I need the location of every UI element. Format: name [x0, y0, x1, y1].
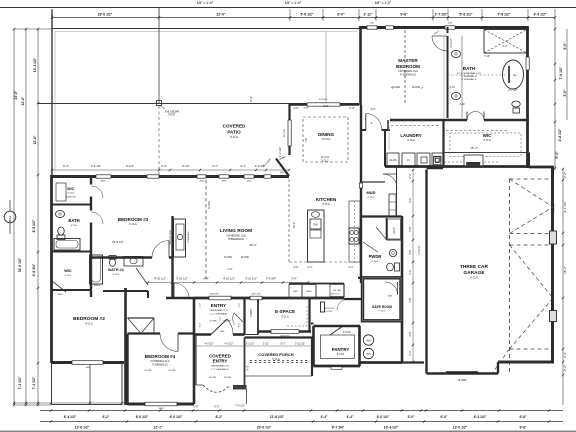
svg-text:4'-11 1/4": 4'-11 1/4" — [554, 203, 556, 212]
svg-text:ENTRY: ENTRY — [211, 303, 226, 308]
svg-text:SLOPE: SLOPE — [209, 377, 217, 379]
svg-text:BR CAB: BR CAB — [333, 289, 341, 292]
svg-text:6'-0 1/2": 6'-0 1/2" — [136, 415, 149, 419]
svg-text:6'-0": 6'-0" — [337, 13, 345, 17]
svg-text:4'-1": 4'-1" — [307, 265, 312, 269]
svg-text:9' SIDEWALLS: 9' SIDEWALLS — [152, 364, 168, 367]
svg-text:9' CLG: 9' CLG — [68, 193, 75, 195]
svg-text:4'-10 1/2": 4'-10 1/2" — [223, 277, 235, 281]
svg-text:9' CLG: 9' CLG — [321, 161, 328, 163]
svg-text:7'-8 1/2": 7'-8 1/2" — [498, 13, 511, 17]
svg-text:3'-10 1/2": 3'-10 1/2" — [245, 277, 257, 281]
svg-text:12'-8": 12'-8" — [33, 135, 37, 144]
svg-text:9' CLG: 9' CLG — [281, 316, 289, 319]
svg-text:9'-8": 9'-8" — [519, 426, 527, 430]
svg-text:3'-1": 3'-1" — [348, 265, 353, 269]
svg-text:4848: 4848 — [101, 181, 107, 183]
svg-text:2'-1 1/2": 2'-1 1/2" — [246, 343, 255, 346]
svg-text:7'-4 1/2": 7'-4 1/2" — [235, 404, 245, 408]
svg-text:13'-0 1/2": 13'-0 1/2" — [453, 426, 468, 430]
svg-text:2'-0": 2'-0" — [161, 164, 167, 168]
svg-text:3070 CO: 3070 CO — [331, 294, 340, 296]
svg-text:2'-2": 2'-2" — [563, 172, 567, 178]
svg-text:1/8" = 1'-0": 1/8" = 1'-0" — [375, 1, 392, 5]
svg-text:2'-3 1/2": 2'-3 1/2" — [278, 147, 282, 158]
svg-text:9'-4": 9'-4" — [200, 323, 202, 328]
svg-text:9' CLG: 9' CLG — [322, 203, 330, 206]
svg-text:4'-4": 4'-4" — [203, 277, 209, 281]
svg-text:9' CLG: 9' CLG — [337, 353, 345, 356]
svg-text:4848: 4848 — [159, 408, 165, 410]
svg-text:2'-7 1/2": 2'-7 1/2" — [435, 13, 448, 17]
svg-text:BEDROOM: BEDROOM — [396, 64, 420, 69]
svg-text:COATS: COATS — [250, 309, 253, 317]
svg-text:FLOOR: FLOOR — [326, 311, 333, 313]
svg-text:9' CLG: 9' CLG — [368, 197, 375, 199]
svg-text:CATHEDRAL CLG: CATHEDRAL CLG — [150, 360, 169, 363]
svg-text:2'-0": 2'-0" — [293, 106, 298, 110]
svg-text:10'-2 CATHEDRAL CLG: 10'-2 CATHEDRAL CLG — [457, 72, 481, 75]
svg-text:BATH: BATH — [68, 218, 79, 223]
svg-text:WIC: WIC — [483, 133, 492, 138]
svg-text:1'-2" SIDEWALLS: 1'-2" SIDEWALLS — [211, 368, 229, 371]
svg-text:2'-11": 2'-11" — [263, 343, 269, 346]
svg-text:CLOS: CLOS — [389, 158, 396, 162]
svg-text:6'-0": 6'-0" — [440, 415, 448, 419]
svg-text:4'-4": 4'-4" — [346, 415, 354, 419]
svg-text:9' CLG: 9' CLG — [85, 323, 93, 326]
svg-text:8: 8 — [9, 219, 11, 223]
svg-text:10' CLG: 10' CLG — [321, 157, 330, 159]
svg-text:10'-4 1/2": 10'-4 1/2" — [384, 426, 399, 430]
svg-text:SLOPE: SLOPE — [241, 256, 249, 259]
svg-text:4'-1": 4'-1" — [212, 164, 218, 168]
svg-text:9' CLG: 9' CLG — [372, 261, 379, 263]
svg-text:6'-4 1/2": 6'-4 1/2" — [64, 415, 77, 419]
svg-text:9' SIDEWALLS: 9' SIDEWALLS — [462, 75, 477, 78]
svg-text:8'-0": 8'-0" — [323, 104, 328, 108]
svg-text:9'-1": 9'-1" — [214, 405, 219, 409]
svg-text:16'-7": 16'-7" — [470, 146, 478, 150]
svg-text:8'-2": 8'-2" — [215, 415, 223, 419]
svg-text:SLOPE: SLOPE — [168, 370, 176, 372]
svg-text:9' CLG: 9' CLG — [113, 274, 120, 276]
svg-text:4'-0 1/2": 4'-0 1/2" — [205, 343, 214, 346]
svg-text:4'-4": 4'-4" — [320, 415, 328, 419]
svg-text:13'-1 1/2": 13'-1 1/2" — [33, 57, 37, 72]
svg-text:6'-0 1/2": 6'-0 1/2" — [170, 415, 183, 419]
svg-text:4'-0 1/2": 4'-0 1/2" — [225, 343, 234, 346]
svg-text:2'-0": 2'-0" — [200, 303, 202, 308]
svg-text:4'-6": 4'-6" — [371, 108, 376, 111]
svg-text:4'-6": 4'-6" — [293, 265, 298, 269]
svg-text:7'-6": 7'-6" — [304, 137, 308, 142]
svg-text:BEDROOM #3: BEDROOM #3 — [118, 217, 149, 222]
svg-text:3'-0": 3'-0" — [407, 415, 415, 419]
svg-text:9' CLG: 9' CLG — [230, 135, 238, 139]
svg-text:SAFE ROOM: SAFE ROOM — [372, 305, 392, 309]
svg-text:9' CLG: 9' CLG — [129, 223, 137, 226]
svg-text:3'-0": 3'-0" — [563, 89, 567, 97]
svg-text:16 5080: 16 5080 — [458, 379, 467, 382]
svg-text:4'-1": 4'-1" — [240, 164, 246, 168]
svg-text:7'-6 1/2": 7'-6 1/2" — [559, 66, 563, 79]
svg-text:3680 DR: 3680 DR — [210, 294, 219, 296]
svg-text:2'-6 1/2": 2'-6 1/2" — [91, 164, 102, 168]
svg-text:9'-8": 9'-8" — [519, 415, 527, 419]
svg-text:3'-10 1/2": 3'-10 1/2" — [176, 277, 188, 281]
svg-text:9' CLG: 9' CLG — [407, 139, 415, 142]
svg-text:9' CLG: 9' CLG — [71, 225, 78, 227]
svg-text:BATH #2: BATH #2 — [108, 268, 124, 272]
svg-text:4'-10 1/2": 4'-10 1/2" — [154, 277, 166, 281]
svg-text:2'-8 1/2": 2'-8 1/2" — [558, 128, 562, 141]
svg-text:2'-0": 2'-0" — [239, 303, 241, 308]
svg-text:4848 FXD: 4848 FXD — [66, 197, 76, 199]
svg-text:7'-10": 7'-10" — [484, 55, 490, 58]
svg-text:30'-2": 30'-2" — [249, 243, 257, 247]
svg-text:6'-4": 6'-4" — [63, 164, 69, 168]
svg-text:BEDROOM #2: BEDROOM #2 — [73, 316, 105, 322]
svg-text:31'-0 1/2": 31'-0 1/2" — [18, 257, 22, 272]
svg-text:12'-6 1/2": 12'-6 1/2" — [75, 426, 90, 430]
svg-text:GARAGE: GARAGE — [463, 270, 485, 276]
svg-text:SLOPE: SLOPE — [208, 201, 211, 209]
svg-text:FRZ: FRZ — [293, 291, 298, 293]
svg-text:PATIO: PATIO — [227, 130, 241, 135]
svg-text:COVERED: COVERED — [223, 124, 246, 129]
svg-text:9' CLG: 9' CLG — [470, 276, 478, 280]
svg-text:2'-2": 2'-2" — [563, 365, 567, 371]
svg-text:1/8" = 1'-0": 1/8" = 1'-0" — [197, 1, 214, 5]
svg-text:SD 5050: SD 5050 — [284, 128, 286, 137]
svg-text:5'-4": 5'-4" — [555, 151, 559, 159]
svg-text:12'-0": 12'-0" — [21, 96, 25, 105]
svg-text:18'-2": 18'-2" — [563, 266, 567, 274]
svg-text:3070 DR: 3070 DR — [252, 294, 261, 296]
svg-text:2'-10: 2'-10 — [449, 87, 455, 89]
svg-text:3030: 3030 — [200, 181, 206, 183]
svg-text:5'-0": 5'-0" — [563, 42, 567, 50]
svg-text:4'-0 1/2": 4'-0 1/2" — [343, 332, 352, 334]
svg-text:9'-4": 9'-4" — [239, 323, 241, 328]
svg-text:5'-8": 5'-8" — [408, 226, 412, 231]
svg-text:4'-9 1/2": 4'-9 1/2" — [534, 13, 547, 17]
svg-text:7'-0": 7'-0" — [303, 106, 308, 110]
svg-text:2'-0": 2'-0" — [408, 269, 412, 274]
svg-text:SLOPE: SLOPE — [144, 370, 152, 372]
svg-text:2'-0": 2'-0" — [408, 350, 412, 355]
svg-text:FRIG: FRIG — [306, 291, 312, 293]
svg-text:12'-1": 12'-1" — [154, 426, 163, 430]
svg-text:3030: 3030 — [222, 181, 228, 183]
svg-text:MASTER: MASTER — [398, 58, 418, 63]
svg-text:2'-11": 2'-11" — [363, 13, 372, 17]
svg-text:WIC: WIC — [64, 269, 72, 273]
svg-text:3'-0": 3'-0" — [408, 197, 412, 202]
svg-text:DINING: DINING — [318, 132, 335, 137]
svg-text:BEDROOM #4: BEDROOM #4 — [145, 354, 176, 359]
svg-text:SLOPE: SLOPE — [224, 256, 232, 259]
svg-text:COVERED PORCH: COVERED PORCH — [258, 352, 293, 357]
svg-text:CATHEDRAL CLG: CATHEDRAL CLG — [209, 309, 227, 312]
svg-text:WH: WH — [367, 353, 371, 356]
svg-text:2'-10: 2'-10 — [459, 103, 465, 106]
svg-text:THREE CAR: THREE CAR — [460, 264, 489, 270]
svg-text:9' CLG: 9' CLG — [483, 139, 491, 142]
svg-text:9' CLG: 9' CLG — [379, 311, 386, 313]
svg-text:4848: 4848 — [58, 294, 64, 296]
svg-text:2'-7 1/2": 2'-7 1/2" — [508, 88, 518, 92]
svg-text:1'-0": 1'-0" — [228, 268, 233, 271]
svg-text:3'-6": 3'-6" — [408, 331, 412, 336]
svg-text:10'-2": 10'-2" — [292, 222, 296, 229]
svg-text:4'-5 1/2": 4'-5 1/2" — [418, 245, 421, 254]
svg-text:LAUNDRY: LAUNDRY — [400, 133, 421, 138]
svg-text:5'-10": 5'-10" — [182, 164, 189, 168]
svg-text:9'-1/4": 9'-1/4" — [126, 164, 134, 168]
svg-text:1'-2" OVERHANG: 1'-2" OVERHANG — [210, 313, 228, 316]
svg-text:6'-2": 6'-2" — [102, 415, 110, 419]
svg-text:KITCHEN: KITCHEN — [316, 197, 337, 202]
svg-text:E-SPACE: E-SPACE — [275, 309, 295, 314]
svg-text:3'-9": 3'-9" — [291, 277, 297, 281]
svg-text:9' SIDEWALLS: 9' SIDEWALLS — [400, 73, 416, 76]
svg-text:OUTLET IN: OUTLET IN — [324, 308, 335, 310]
svg-text:9'-0": 9'-0" — [249, 96, 253, 102]
svg-text:4'-2": 4'-2" — [502, 44, 507, 48]
svg-text:8'-7 3/4": 8'-7 3/4" — [332, 426, 345, 430]
svg-text:9'-8": 9'-8" — [400, 13, 408, 17]
svg-text:HI BEAMS/LID: HI BEAMS/LID — [228, 238, 244, 241]
svg-text:8'-5 1/2": 8'-5 1/2" — [32, 219, 36, 232]
svg-text:6' SIDEWALLS: 6' SIDEWALLS — [462, 78, 477, 81]
svg-text:9'-1 1/2": 9'-1 1/2" — [563, 202, 567, 213]
svg-text:POST: POST — [168, 113, 175, 117]
svg-text:CATHEDRAL CLG: CATHEDRAL CLG — [211, 365, 229, 368]
svg-text:6'-0 1/2": 6'-0 1/2" — [377, 415, 390, 419]
svg-text:9'-5 1/2": 9'-5 1/2" — [450, 38, 453, 47]
svg-text:5'-6 1/2": 5'-6 1/2" — [301, 13, 314, 17]
svg-text:6'-9 3/4": 6'-9 3/4" — [32, 263, 36, 276]
svg-text:W/C: W/C — [67, 187, 75, 191]
svg-text:18'-0 1/2": 18'-0 1/2" — [98, 13, 113, 17]
svg-text:9'-0": 9'-0" — [247, 365, 250, 370]
svg-text:1'-0": 1'-0" — [193, 405, 198, 409]
svg-text:SLOPE: SLOPE — [412, 86, 420, 89]
svg-text:23'-0": 23'-0" — [14, 90, 18, 99]
svg-text:ENTRY: ENTRY — [213, 359, 228, 364]
svg-text:11'-6 1/2": 11'-6 1/2" — [270, 415, 285, 419]
svg-text:10'-8 1/2": 10'-8 1/2" — [112, 240, 124, 244]
svg-text:BATH: BATH — [463, 66, 476, 71]
svg-text:SD 5050: SD 5050 — [319, 99, 328, 101]
svg-text:LINEN: LINEN — [393, 227, 396, 234]
svg-text:5'-0": 5'-0" — [281, 343, 286, 346]
svg-text:WH: WH — [367, 340, 371, 343]
svg-text:6'-3 1/2": 6'-3 1/2" — [474, 415, 487, 419]
svg-text:3'-11 1/2": 3'-11 1/2" — [295, 343, 305, 346]
svg-text:20'-0 1/2": 20'-0 1/2" — [257, 426, 272, 430]
svg-text:22'-0": 22'-0" — [216, 13, 226, 17]
svg-text:3'-9 3/4": 3'-9 3/4" — [266, 277, 276, 281]
svg-text:FIREPLACE: FIREPLACE — [187, 231, 190, 243]
svg-text:SHELF: SHELF — [94, 285, 101, 287]
svg-text:SLOPE: SLOPE — [224, 377, 232, 379]
svg-text:7'-4 1/2": 7'-4 1/2" — [32, 376, 36, 389]
svg-text:SLOPE: SLOPE — [392, 86, 400, 89]
svg-text:PANTRY: PANTRY — [332, 347, 350, 352]
svg-text:3030: 3030 — [247, 181, 253, 183]
svg-text:S+: S+ — [513, 73, 517, 77]
svg-text:5'-8 1/2": 5'-8 1/2" — [460, 13, 473, 17]
svg-text:SLOPE: SLOPE — [209, 321, 217, 323]
svg-text:2'-8": 2'-8" — [408, 297, 412, 302]
svg-text:2'-2": 2'-2" — [563, 352, 567, 358]
svg-text:3'-6": 3'-6" — [408, 249, 412, 254]
svg-text:2'-0": 2'-0" — [349, 106, 354, 110]
svg-text:PROVIDE VENT: PROVIDE VENT — [170, 229, 172, 245]
svg-text:PWDR: PWDR — [369, 254, 382, 259]
svg-text:LIVING ROOM: LIVING ROOM — [220, 228, 252, 234]
svg-text:DW: DW — [313, 223, 318, 227]
svg-text:2'-2": 2'-2" — [408, 173, 412, 178]
svg-text:7'-4 1/2": 7'-4 1/2" — [18, 376, 22, 389]
svg-text:MUD: MUD — [366, 190, 375, 195]
svg-text:1/8" = 1'-0": 1/8" = 1'-0" — [285, 1, 302, 5]
svg-text:10' CLG: 10' CLG — [322, 138, 331, 141]
svg-text:9' CLG: 9' CLG — [65, 275, 72, 277]
